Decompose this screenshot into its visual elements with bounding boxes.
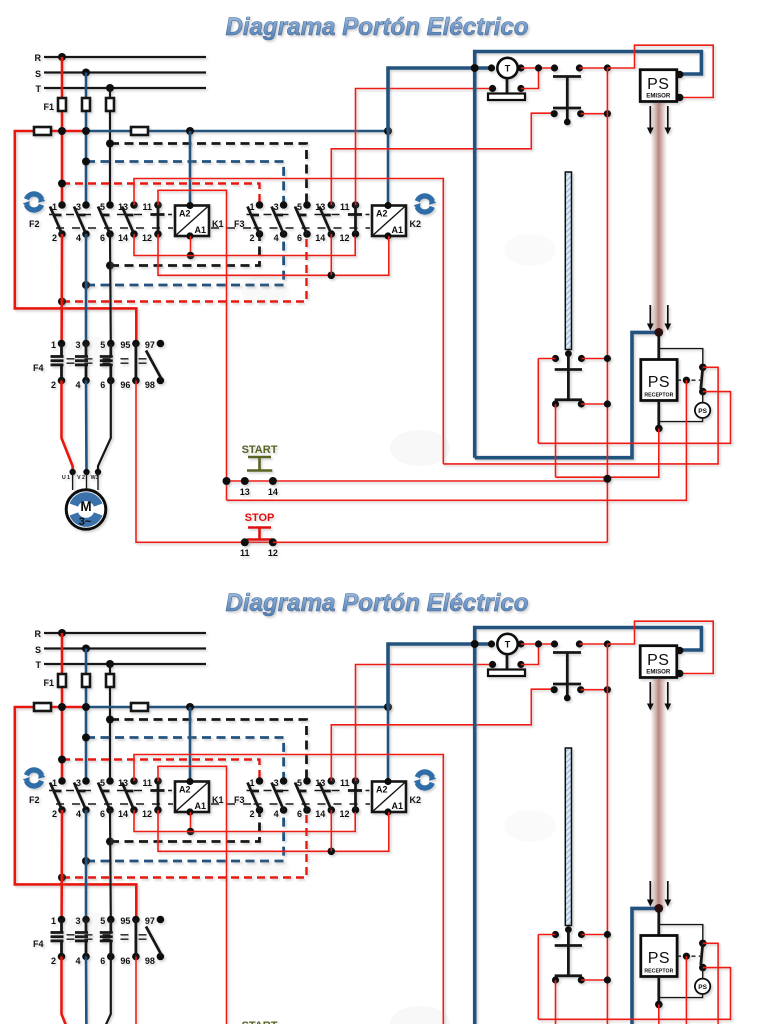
schematic copy 1 (top) xyxy=(15,13,731,558)
schematic copy 2 (bottom, clipped by page) xyxy=(15,589,731,1024)
